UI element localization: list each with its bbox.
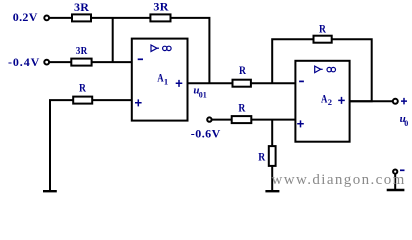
svg-text:R: R xyxy=(79,81,86,95)
svg-text:R: R xyxy=(238,100,245,114)
svg-text:R: R xyxy=(258,150,265,164)
svg-text:R: R xyxy=(239,63,246,77)
svg-text:3R: 3R xyxy=(76,46,88,57)
svg-text:01: 01 xyxy=(199,91,207,100)
svg-text:0.2V: 0.2V xyxy=(13,10,38,24)
svg-text:3R: 3R xyxy=(74,0,89,14)
svg-text:www.diangon.com: www.diangon.com xyxy=(272,172,406,188)
svg-text:3R: 3R xyxy=(153,0,168,14)
svg-text:-0.4V: -0.4V xyxy=(8,55,40,69)
svg-text:-0.6V: -0.6V xyxy=(191,127,221,141)
svg-text:R: R xyxy=(319,21,326,35)
svg-text:0: 0 xyxy=(404,119,408,128)
